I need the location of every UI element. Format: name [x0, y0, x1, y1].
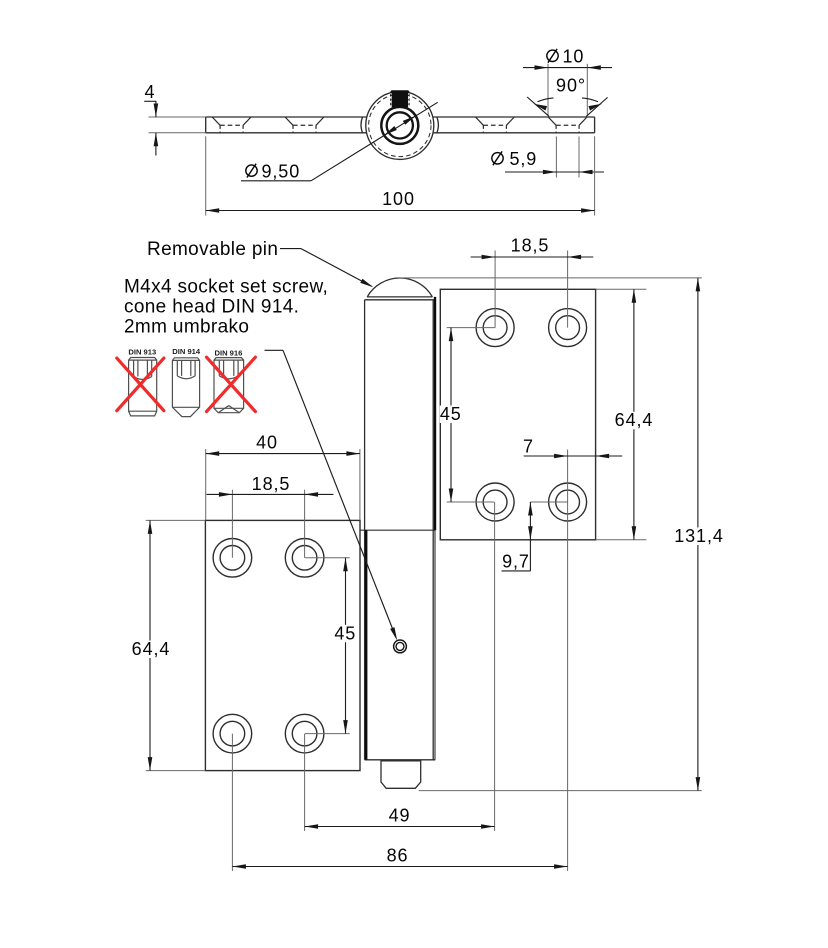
right plate hole top-left [476, 309, 514, 347]
svg-text:5,9: 5,9 [510, 149, 538, 169]
svg-text:2mm umbrako: 2mm umbrako [124, 317, 249, 338]
svg-text:9,50: 9,50 [262, 161, 301, 181]
dim O5,9 (hole) [556, 137, 579, 178]
svg-text:64,4: 64,4 [615, 410, 654, 430]
knuckle junction line [360, 529, 435, 531]
set screw thread block [390, 90, 409, 107]
left plate hole top-right [285, 539, 324, 578]
lower knuckle outer edge (thick) [365, 530, 367, 760]
dim 40 (left plate width) [206, 449, 360, 520]
bar left end [205, 117, 207, 133]
svg-text:49: 49 [389, 806, 411, 826]
dim 45 (right plate vertical hole spacing) [447, 328, 495, 502]
dim 7 (hole to edge) [567, 450, 569, 503]
dim 90 degrees countersink angle [527, 97, 607, 116]
knuckle neck fillet left [361, 117, 363, 133]
dim 100 (bar length) [206, 136, 595, 215]
knuckle neck fillet right [437, 117, 439, 133]
svg-text:10: 10 [563, 47, 585, 67]
hinge bar top edge (top view) [206, 116, 595, 118]
barrel bottom edge [365, 759, 436, 761]
svg-text:90°: 90° [556, 76, 586, 96]
DIN 916 icon [214, 358, 244, 413]
svg-text:4: 4 [145, 82, 156, 102]
dim 49 (pin offset) [305, 502, 495, 831]
svg-text:131,4: 131,4 [674, 526, 724, 546]
right leaf plate [440, 289, 595, 540]
svg-text:7: 7 [523, 437, 534, 457]
DIN 914 icon [172, 358, 199, 417]
DIN 913 icon [129, 358, 157, 416]
dim 64,4 (right plate height) [596, 289, 646, 540]
left leaf plate [205, 520, 360, 770]
svg-text:DIN 914: DIN 914 [172, 347, 201, 356]
dim 9,7 (hole to bottom edge) [530, 501, 567, 503]
knuckle rolled-edge dashed circle [369, 94, 431, 156]
svg-text:45: 45 [334, 623, 356, 643]
dim O9,50 (pin hole) leader [241, 102, 438, 181]
removable pin dome [367, 278, 432, 297]
dim O10 (countersink opening) [548, 64, 587, 115]
left plate hole bottom-left [213, 714, 252, 753]
upper knuckle outer edge (thick) [434, 297, 436, 530]
left plate hole bottom-right [285, 714, 324, 753]
dim 86 (outer hole spacing) [232, 502, 567, 871]
svg-text:cone head DIN 914.: cone head DIN 914. [124, 297, 299, 318]
dim 18,5 (right plate hole spacing) [495, 251, 567, 328]
hinge bar bottom edge (top view) [206, 132, 595, 134]
dim 4 (bar thickness) [149, 117, 206, 133]
set screw hole on knuckle [394, 640, 407, 653]
right plate hole bottom-left [476, 483, 514, 521]
leader set screw note [265, 350, 397, 637]
svg-text:DIN 913: DIN 913 [128, 348, 156, 357]
countersunk holes on bar (4x) [212, 117, 587, 133]
right plate hole bottom-right [549, 483, 587, 521]
pin tip [381, 761, 421, 788]
barrel top edge [365, 299, 436, 301]
svg-text:86: 86 [387, 846, 409, 866]
bar right end [594, 117, 596, 133]
dim 64,4 (left plate height) [146, 520, 206, 770]
barrel left side [364, 300, 366, 760]
svg-text:9,7: 9,7 [502, 552, 530, 572]
pin bore inner circle [387, 112, 413, 138]
right plate hole top-right [549, 309, 587, 347]
svg-text:M4x4 socket set screw,: M4x4 socket set screw, [124, 277, 328, 298]
dim 18,5 (left plate hole spacing) [232, 490, 304, 558]
dim 45 (left plate vertical hole spacing) [305, 558, 350, 734]
svg-text:18,5: 18,5 [511, 236, 550, 256]
svg-text:64,4: 64,4 [132, 639, 171, 659]
svg-text:45: 45 [440, 404, 462, 424]
svg-text:18,5: 18,5 [252, 474, 291, 494]
svg-text:Removable pin: Removable pin [147, 239, 278, 260]
pin hole O9.5 circle [381, 107, 418, 144]
lower knuckle right edge [434, 530, 436, 760]
barrel right side [432, 300, 434, 760]
red cross DIN 916 [207, 357, 256, 411]
leader removable pin [280, 249, 372, 287]
red cross DIN 913 [117, 358, 164, 411]
dim 131,4 (overall height) [398, 278, 702, 791]
knuckle outer circle [366, 91, 434, 159]
svg-text:100: 100 [382, 189, 415, 209]
left plate hole top-left [213, 539, 252, 578]
svg-text:40: 40 [256, 433, 278, 453]
svg-text:DIN 916: DIN 916 [214, 349, 242, 358]
